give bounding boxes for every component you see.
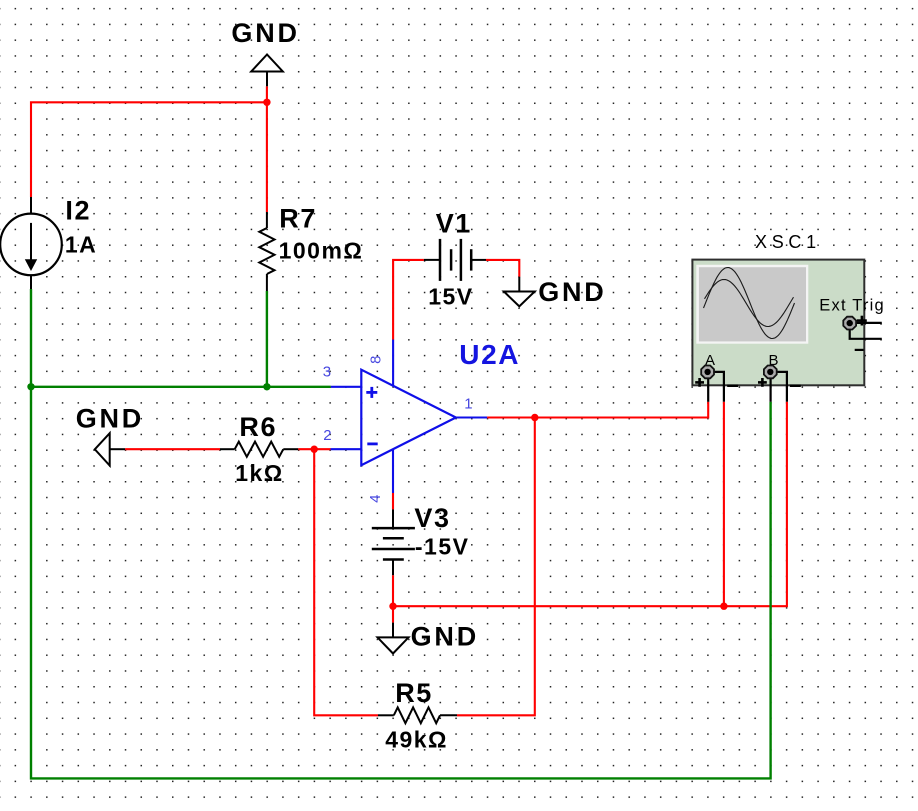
svg-text:15V: 15V [428,284,473,310]
svg-text:8: 8 [368,356,385,364]
wire red: R6 to pin2 junction [298,448,330,450]
svg-text:R6: R6 [239,412,277,442]
wire red: pin8 up and across to V1 [393,260,424,340]
svg-text:49kΩ: 49kΩ [385,727,448,753]
junction dot green R7 [263,383,270,390]
svg-text:R7: R7 [279,204,317,234]
wire red: gnd rail across to scope B- [393,402,787,606]
op-amp U2A [361,339,520,465]
svg-text:1: 1 [464,396,472,413]
resistor R6 [220,412,298,486]
wire green: I2 bottom down, across bottom, up to scope B+ [31,289,771,778]
wire blue: pin2 stub [331,448,362,450]
wire red: top rail junction down to R7 [266,102,268,212]
svg-text:R5: R5 [395,678,433,708]
svg-text:1A: 1A [65,232,97,258]
wire red: left GND arrow to R6 [125,448,220,450]
svg-text:3: 3 [323,364,331,381]
scope channel A terminal [695,352,738,402]
svg-text:-15V: -15V [415,533,470,559]
svg-text:U2A: U2A [459,339,520,370]
wire blue: pin4 stub [392,449,394,493]
junction dot green left [27,383,34,390]
wire green: left junction to pin3 [31,386,331,388]
resistor R5 [378,678,457,753]
svg-text:GND: GND [411,621,479,651]
svg-text:GND: GND [231,18,299,48]
svg-text:Ext Trig: Ext Trig [819,297,885,315]
svg-text:XSC1: XSC1 [755,232,821,252]
wire red: top rail junction up to GND lead [266,86,268,102]
oscilloscope XSC1 body [692,260,864,386]
svg-text:2: 2 [323,427,331,444]
svg-text:GND: GND [538,277,606,307]
wire red: V3 bottom to GND junction [392,575,394,622]
svg-text:GND: GND [76,403,144,433]
wire red: pin2 junction down and across to R5 [314,449,378,715]
svg-text:4: 4 [367,495,384,503]
ext trig terminal [843,316,882,350]
wire red: I2 top to top rail corner [31,102,267,197]
junction dot V3 gnd node [389,603,396,610]
wire red: R5 right to output column [457,418,535,716]
wire blue: pin3 stub [331,386,362,388]
current source I2 [0,195,97,289]
svg-text:V1: V1 [436,208,472,238]
wire blue: pin8 stub [392,340,394,386]
scope trace B [705,280,794,327]
wire red: V1 right lead to GND [486,260,519,277]
svg-text:V3: V3 [414,503,450,533]
svg-text:1kΩ: 1kΩ [235,460,284,486]
junction dot A- on gnd rail [720,603,727,610]
junction dot top rail [263,99,270,106]
svg-text:100mΩ: 100mΩ [279,238,364,264]
scope trace A [704,268,795,339]
scope channel B terminal [758,352,801,402]
ground below V3 [378,621,480,653]
wire red: pin4 to V3 [392,493,394,509]
junction dot pin2 node [311,446,318,453]
resistor R7 [259,204,363,291]
wire red: scope A- down to gnd rail [723,402,725,606]
ground left (GND arrow at R6) [76,403,144,465]
battery V1 [424,208,486,309]
wire blue: pin1 output stub [456,416,487,418]
ground top (GND above R7) [231,18,299,86]
wire green: R7 bottom to junction [266,291,268,387]
junction dot output node [531,414,538,421]
battery V3 [372,503,470,575]
ground at V1 [504,277,607,307]
wire red: op-amp output to scope A+ [487,402,708,418]
svg-text:I2: I2 [65,195,91,225]
